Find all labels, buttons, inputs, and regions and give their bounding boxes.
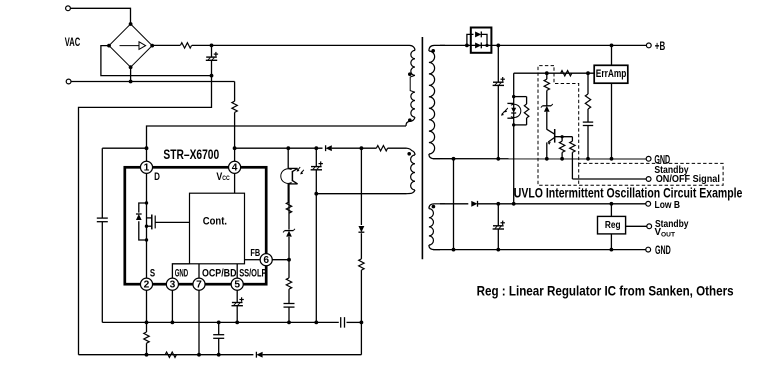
capacitor C-out (electrolytic) bbox=[493, 45, 505, 158]
svg-text:2: 2 bbox=[144, 280, 150, 291]
wire OCP line right bbox=[263, 354, 362, 356]
capacitor C-ea bbox=[583, 109, 593, 159]
terminal GND bbox=[646, 156, 651, 161]
resistor R-bd bbox=[359, 259, 364, 270]
junction gnd tie top bbox=[452, 157, 456, 161]
wire bridge+ to resistor bbox=[152, 44, 180, 46]
wire secondary top to rectifier bbox=[440, 44, 471, 46]
resistor R-fb-upper bbox=[286, 202, 291, 213]
capacitor C-bulk (electrolytic) bbox=[206, 45, 218, 75]
wire DC return to left rail bbox=[79, 76, 212, 355]
svg-text:ON/OFF Signal: ON/OFF Signal bbox=[656, 174, 720, 185]
wire resistor to transformer primary top bbox=[192, 44, 405, 46]
svg-text:Reg : Linear Regulator IC fro: Reg : Linear Regulator IC from Sanken, O… bbox=[477, 282, 734, 298]
wire pin6 to FB node bbox=[272, 259, 289, 261]
junction bus cap bottom bbox=[210, 74, 214, 78]
wire Low B rail bbox=[478, 203, 646, 205]
junction Cocp top bbox=[217, 321, 221, 325]
transformer primary winding upper bbox=[405, 45, 415, 76]
junction PC1 top Vcc line bbox=[286, 146, 290, 150]
resistor R-base1 bbox=[559, 137, 564, 159]
wire pin2 to MOSFET source bbox=[146, 240, 148, 278]
dual diode rectifier D2 bbox=[467, 28, 492, 53]
terminal GND2 bbox=[646, 247, 651, 252]
junction Quvlo emitter ground bbox=[545, 157, 549, 161]
wire aux winding bottom bbox=[316, 193, 406, 195]
diode D-body bbox=[139, 203, 147, 213]
svg-text:5: 5 bbox=[234, 280, 240, 291]
junction Css ground bbox=[235, 321, 239, 325]
wire OCP sense line bbox=[79, 354, 254, 356]
wire pin6 to Cont bbox=[245, 259, 261, 261]
junction ErrAmp ground bbox=[610, 157, 614, 161]
transistor Q-uvlo bbox=[547, 129, 555, 159]
capacitor C-vcc (electrolytic) bbox=[311, 148, 323, 194]
svg-text:6: 6 bbox=[263, 255, 269, 266]
junction pin2 ground bbox=[145, 321, 149, 325]
wire pin2 down bbox=[146, 290, 148, 332]
wire ErrAmp input line bbox=[514, 72, 595, 74]
terminal +B bbox=[646, 43, 651, 48]
svg-text:Cont.: Cont. bbox=[203, 216, 227, 228]
junction Rea right bbox=[586, 71, 590, 75]
wire aux return to ground bbox=[315, 194, 317, 323]
wire startup resistor to Vcc node bbox=[234, 112, 236, 161]
transformer primary winding lower bbox=[406, 75, 415, 126]
wire pin7 down bbox=[198, 290, 200, 355]
diode D-vcc bbox=[326, 145, 332, 151]
junction BD branch top bbox=[360, 146, 364, 150]
wire +B to ErrAmp bbox=[611, 45, 613, 65]
svg-text:7: 7 bbox=[196, 280, 202, 291]
resistor R-ocp bbox=[144, 332, 149, 343]
svg-text:ErrAmp: ErrAmp bbox=[596, 68, 627, 80]
svg-text:3: 3 bbox=[170, 280, 176, 291]
junction C-lowb top bbox=[496, 202, 500, 206]
wire pin1 to MOSFET drain bbox=[146, 173, 148, 203]
junction Rocp OCP line bbox=[145, 353, 149, 357]
box ErrAmp bbox=[594, 65, 628, 83]
bridge rectifier D1 bbox=[107, 22, 154, 69]
junction C-lowb bottom bbox=[496, 248, 500, 252]
wire drain to transformer bbox=[147, 126, 407, 161]
terminal Low B bbox=[646, 201, 651, 206]
svg-text:SS/OLP: SS/OLP bbox=[239, 268, 266, 280]
wire snubber branch bbox=[102, 147, 146, 149]
junction FB node bbox=[287, 258, 291, 262]
wire primary ground bus bbox=[102, 321, 338, 323]
box Reg bbox=[598, 216, 626, 234]
diode ZD-uvlo (zener) bbox=[541, 104, 553, 130]
wire resistor to aux winding bbox=[388, 147, 407, 149]
junction bridge bottom on AC line bbox=[129, 80, 133, 84]
junction bus cap top bbox=[210, 44, 214, 48]
terminal VAC bottom bbox=[66, 79, 71, 84]
box Cont. bbox=[190, 193, 245, 264]
svg-text:GND: GND bbox=[175, 268, 189, 280]
junction Cvcc bottom bbox=[314, 192, 318, 196]
svg-text:Reg: Reg bbox=[605, 220, 621, 231]
transformer aux winding bbox=[407, 148, 416, 194]
diode D-bd2 bbox=[358, 226, 364, 232]
wire +B rail bbox=[491, 44, 646, 46]
junction pin3 ground bbox=[171, 321, 175, 325]
wire BD branch lower bbox=[360, 270, 362, 355]
junction C+B top bbox=[496, 44, 500, 48]
wire secondary ground bus bbox=[433, 158, 646, 160]
junction aux return ground bbox=[314, 321, 318, 325]
capacitor C-lowb (electrolytic) bbox=[493, 204, 505, 250]
junction Cvcc top bbox=[314, 146, 318, 150]
dashed Standby box shared edge bbox=[578, 163, 580, 185]
wire standby ground rail bbox=[433, 249, 646, 251]
junction Cfb ground bbox=[287, 321, 291, 325]
wire ErrAmp bottom to ground bbox=[611, 83, 613, 159]
wire standby winding to diode bbox=[440, 203, 468, 205]
photocoupler PC1 transistor bbox=[281, 148, 304, 202]
svg-text:S: S bbox=[150, 268, 155, 280]
wire bottom AC input bbox=[71, 81, 234, 83]
capacitor C-ss (electrolytic pin5) bbox=[232, 290, 244, 322]
svg-text:UVLO Intermittent Oscillation: UVLO Intermittent Oscillation Circuit Ex… bbox=[514, 184, 743, 200]
pin 3 GND bbox=[166, 278, 178, 290]
junction BD cap bbox=[360, 321, 364, 325]
transformer T1 core bbox=[421, 37, 423, 259]
resistor R-uvlo bbox=[544, 73, 549, 105]
wire bridge- loop bbox=[101, 46, 212, 76]
svg-text:Low B: Low B bbox=[655, 199, 681, 211]
svg-text:1: 1 bbox=[144, 163, 150, 174]
terminal Standby Vout bbox=[647, 224, 652, 229]
junction LED return Low B bbox=[512, 202, 516, 206]
transistor Q-mosfet bbox=[136, 201, 190, 241]
resistor R-ea (horizontal) bbox=[561, 71, 572, 76]
junction Cout ground bbox=[496, 157, 500, 161]
svg-text:D: D bbox=[154, 171, 160, 183]
svg-text:FB: FB bbox=[250, 248, 260, 259]
wire diode to aux resistor bbox=[332, 147, 377, 149]
wire LED return to Low B bbox=[513, 125, 515, 204]
light arrows bbox=[505, 108, 508, 112]
wire ground bus to aux vertical bbox=[347, 321, 362, 323]
wire ErrAmp line to LED bbox=[513, 73, 515, 96]
capacitor C-snubber leg bbox=[97, 148, 108, 322]
wire LowB to Reg bbox=[610, 204, 612, 217]
resistor R-base2 bbox=[570, 137, 575, 179]
wire pin7 to Cont bbox=[198, 264, 200, 279]
junction Cea ground bbox=[586, 157, 590, 161]
resistor R-eafilter bbox=[585, 73, 590, 109]
pin 4 Vcc bbox=[229, 161, 241, 173]
wire AC to startup resistor bbox=[234, 82, 236, 102]
junction gnd tie bottom bbox=[452, 248, 456, 252]
pin 6 FB bbox=[260, 254, 272, 266]
wire Rocp to OCP line bbox=[146, 343, 148, 355]
wire top AC input bbox=[71, 8, 131, 24]
svg-text:GND: GND bbox=[655, 243, 671, 257]
pin 2 S bbox=[140, 278, 152, 290]
junction Vcc node bbox=[233, 146, 237, 150]
wire Vcc feed bbox=[235, 147, 323, 149]
wire pin4 to Cont top bbox=[234, 173, 236, 193]
light arrows bbox=[297, 167, 300, 171]
capacitor C-fb bbox=[284, 289, 295, 322]
terminal VAC top bbox=[66, 6, 71, 11]
diode D-lowb bbox=[471, 201, 477, 207]
resistor R-aux bbox=[376, 146, 387, 151]
pin 1 D bbox=[140, 161, 152, 173]
capacitor C-ocp (gnd to OCP line) bbox=[213, 322, 224, 354]
photocoupler PC1 LED bbox=[501, 97, 521, 125]
svg-text:+B: +B bbox=[655, 39, 666, 53]
junction Cocp bottom bbox=[217, 353, 221, 357]
wire Reg to GND2 bbox=[610, 234, 612, 250]
wire base lead bbox=[555, 136, 573, 138]
junction UVLO tap bbox=[545, 71, 549, 75]
terminal ON/OFF bbox=[646, 177, 651, 182]
wire pin3 to ground bbox=[171, 290, 173, 322]
junction Reg bottom bbox=[610, 248, 614, 252]
wire BD branch upper bbox=[360, 148, 362, 225]
transformer secondary main winding bbox=[429, 45, 445, 158]
svg-text:OCP/BD: OCP/BD bbox=[202, 268, 237, 280]
junction base R1 bbox=[561, 135, 564, 138]
capacitor C-gnd-aux (in ground bus) bbox=[340, 317, 342, 328]
wire gnd tie bbox=[453, 159, 455, 250]
junction pin7 OCP line bbox=[197, 353, 201, 357]
svg-text:4: 4 bbox=[232, 163, 238, 174]
junction ErrAmp top +B bbox=[610, 44, 614, 48]
junction Rbase1 ground bbox=[560, 157, 564, 161]
resistor R-line (fusible) bbox=[180, 43, 191, 48]
wire Reg output bbox=[626, 225, 647, 227]
resistor R-fb bbox=[286, 260, 291, 289]
IC STR-X6700 outline bbox=[125, 167, 266, 284]
wire pin3 to Cont bbox=[172, 264, 189, 279]
resistor R-startup bbox=[232, 101, 237, 112]
diode ZD-fb (zener) bbox=[283, 184, 295, 260]
wire pin5 to Cont bbox=[236, 264, 238, 279]
pin 7 OCP/BD bbox=[193, 278, 205, 290]
diode D-bd (on OCP line) bbox=[256, 352, 262, 358]
svg-text:STR–X6700: STR–X6700 bbox=[163, 146, 219, 162]
junction drain node bbox=[145, 146, 149, 150]
junction Reg top bbox=[610, 202, 614, 206]
wire gate lead bbox=[155, 221, 189, 223]
wire diode to resistor bbox=[360, 233, 362, 259]
dashed UVLO box bbox=[538, 66, 723, 186]
svg-text:VAC: VAC bbox=[65, 35, 80, 49]
transformer standby winding bbox=[429, 204, 445, 250]
wire ON/OFF signal bbox=[572, 178, 646, 180]
pin 5 SS/OLP bbox=[231, 278, 243, 290]
wire bridge bottom stub bbox=[130, 67, 132, 81]
resistor R-led (parallel) bbox=[512, 95, 529, 127]
junction rectifier anode tie bbox=[465, 44, 469, 48]
resistor R-ocp-filter (horizontal) bbox=[165, 352, 176, 357]
